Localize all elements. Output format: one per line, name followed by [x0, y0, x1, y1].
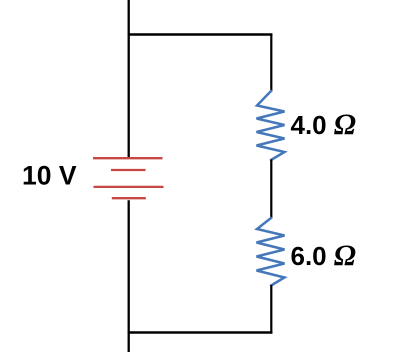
resistor R2 (6.0 ohm zigzag) [257, 218, 285, 286]
wire: bottom horizontal from right branch to left wire [128, 331, 273, 333]
battery V1: short negative plate (second) [111, 169, 146, 171]
wire: left vertical stub above top junction [128, 0, 130, 35]
wire: right vertical from top wire down to resistor R1 [270, 33, 272, 91]
battery V1 (10 V): long positive plate (top) [93, 157, 163, 159]
wire: top horizontal from left wire to right branch [128, 33, 273, 35]
wire: right vertical from resistor R2 down to bottom wire [270, 285, 272, 334]
wire: right vertical between resistor R1 and resistor R2 [270, 160, 272, 219]
battery V1: short negative plate (bottom) [112, 197, 146, 199]
wire: left vertical from top junction down to battery positive plate [128, 35, 130, 160]
wire: left vertical from battery negative plate down to bottom junction [128, 200, 130, 332]
battery V1: long positive plate (third) [94, 186, 164, 188]
wire: left vertical stub below bottom junction [128, 333, 130, 352]
svg-text:10 V: 10 V [22, 160, 77, 190]
svg-text:6.0 Ω: 6.0 Ω [291, 240, 356, 272]
svg-text:4.0 Ω: 4.0 Ω [291, 109, 356, 141]
resistor R1 (4.0 ohm zigzag) [257, 91, 285, 160]
